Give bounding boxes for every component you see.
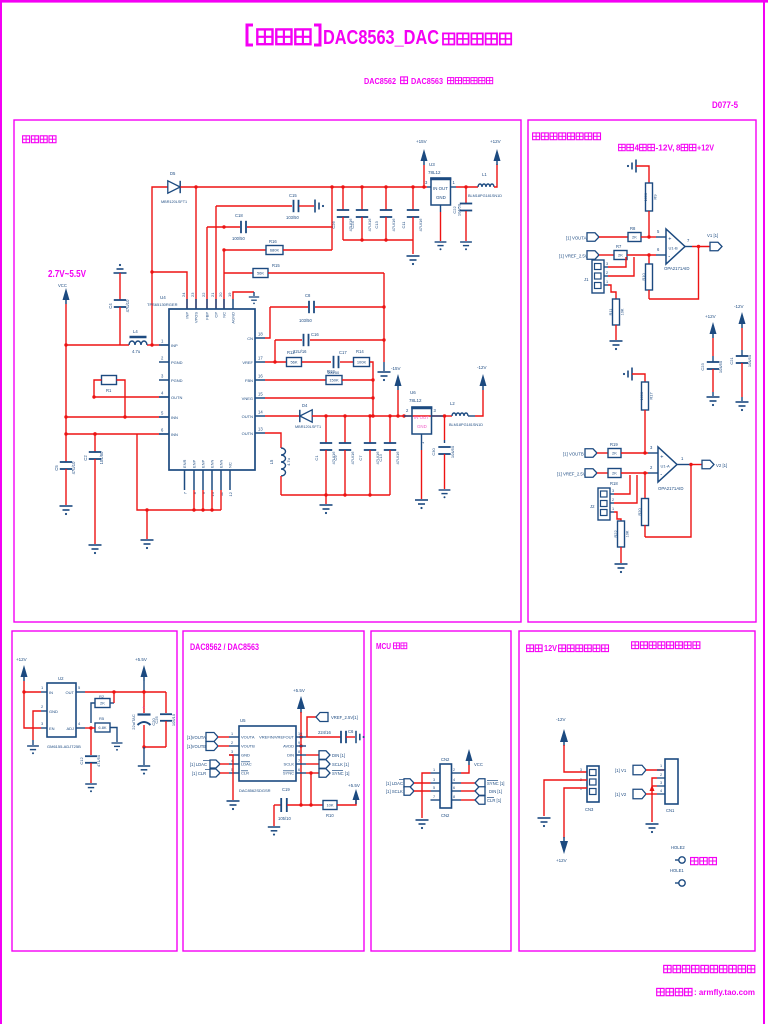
- svg-text:DAC8562: DAC8562: [364, 77, 396, 86]
- wire R19 to opamp pin3: [621, 452, 648, 454]
- svg-text:22u/TAC: 22u/TAC: [131, 714, 136, 730]
- wire main input rail: [66, 344, 129, 346]
- svg-text:2K: 2K: [100, 701, 105, 706]
- wire CN3 pin2 to ground: [544, 780, 587, 816]
- wire VCC down: [65, 304, 67, 345]
- svg-text:2: 2: [231, 741, 233, 745]
- svg-text:+5.5V: +5.5V: [135, 657, 147, 662]
- op-amp U1-B OPA2171AID: [666, 229, 685, 264]
- svg-text:C9: C9: [333, 455, 338, 461]
- svg-text:CLR: CLR: [241, 771, 249, 776]
- wire pin16 row: [265, 379, 326, 381]
- svg-text:1: 1: [606, 280, 608, 284]
- svg-text:6: 6: [453, 786, 455, 790]
- svg-text:U5: U5: [240, 718, 246, 723]
- svg-text:CP: CP: [214, 312, 219, 318]
- wire VCC to pin2: [461, 765, 469, 773]
- svg-text:C21: C21: [729, 357, 734, 365]
- svg-text:56K: 56K: [290, 360, 297, 365]
- svg-text:471/50: 471/50: [96, 754, 101, 767]
- resistor R11 10K vertical: [613, 299, 620, 325]
- port VREF_2.5V out: [306, 736, 341, 738]
- wire J1 pin3 to inverting node: [608, 257, 626, 267]
- svg-text:47U/16: 47U/16: [418, 218, 423, 232]
- CN2 pin 3: [431, 782, 441, 784]
- wire J1 pin2 to inverting node: [608, 257, 634, 276]
- svg-text:3: 3: [660, 781, 662, 785]
- diode D4 MBR120LSFT1: [300, 410, 312, 422]
- ground left (CN3): [538, 818, 551, 822]
- U6 GND pin to ground: [421, 434, 423, 450]
- svg-text:21: 21: [210, 292, 215, 297]
- inductor L1 BLM18PG181SN1D: [478, 184, 494, 187]
- U4 pin 15 VNEG: [255, 397, 265, 399]
- wire ground bus (MCU): [422, 773, 431, 818]
- wire -12V to CN3 pin3: [564, 745, 587, 772]
- svg-text:4.7u: 4.7u: [132, 349, 141, 354]
- svg-text:VREF: VREF: [242, 360, 253, 365]
- svg-text:100K: 100K: [357, 360, 367, 365]
- wire R17 to +input: [644, 410, 646, 453]
- svg-text:104/50: 104/50: [99, 451, 104, 464]
- U4 pin 13 OUTN: [255, 432, 265, 434]
- feedback wire to R20: [645, 465, 691, 538]
- svg-text:GND: GND: [417, 424, 427, 429]
- svg-text:HOLE1: HOLE1: [670, 868, 684, 873]
- resistor R10 100K vertical (feedback): [648, 255, 650, 264]
- svg-text:SYNC [1]: SYNC [1]: [332, 771, 349, 776]
- svg-text:VCC: VCC: [474, 762, 483, 767]
- svg-text:R1: R1: [106, 388, 112, 393]
- svg-text:U3: U3: [429, 162, 435, 167]
- svg-text:22U/16: 22U/16: [293, 349, 307, 354]
- svg-text:[1] LDAC: [1] LDAC: [386, 781, 403, 786]
- U4 pin 1 INP: [159, 344, 169, 346]
- svg-text:C15: C15: [289, 193, 297, 198]
- wire ground to R17: [632, 374, 645, 382]
- feedback wire to R10: [649, 247, 699, 300]
- svg-text:U1-B: U1-B: [669, 246, 678, 251]
- svg-text:10K: 10K: [326, 803, 333, 808]
- svg-text:D4: D4: [302, 403, 308, 408]
- svg-text:1: 1: [433, 768, 435, 772]
- port DIN (MCU): [461, 790, 475, 792]
- svg-text:ENP: ENP: [192, 459, 197, 468]
- ground under C12: [85, 784, 97, 788]
- U4 pin 23 VPOS: [195, 299, 197, 309]
- footer 武汉安富莱电子有限公司: [664, 965, 671, 972]
- port SYNC (MCU): [461, 782, 475, 784]
- port DIN: [306, 754, 319, 756]
- wire pin13 to L5: [265, 433, 281, 448]
- wire INP top pin feed: [152, 272, 187, 309]
- svg-text:13: 13: [258, 427, 263, 432]
- svg-text:R10: R10: [641, 273, 646, 281]
- wire C8 row: [270, 306, 308, 308]
- wire CP top pin feed: [206, 227, 208, 309]
- svg-text:[1] V2: [1] V2: [615, 792, 627, 797]
- resistor R7 2K: [614, 251, 627, 260]
- svg-text:C13: C13: [374, 221, 379, 229]
- svg-text:BLM18PG181SN1D: BLM18PG181SN1D: [468, 194, 502, 198]
- svg-text:2.7V~5.5V: 2.7V~5.5V: [48, 269, 86, 280]
- port V1: [710, 242, 722, 251]
- svg-text:V1 [1]: V1 [1]: [707, 233, 718, 238]
- ground under U2 gnd: [27, 746, 39, 750]
- svg-text:C16: C16: [311, 332, 319, 337]
- svg-text:C30: C30: [431, 448, 436, 456]
- wire R7 to opamp pin6: [627, 254, 656, 256]
- capacitor C17 100/50: [334, 356, 339, 368]
- wire J2 pin3 to inverting node: [614, 475, 630, 494]
- wire riser x384: [383, 273, 385, 362]
- svg-text:U1-A: U1-A: [661, 464, 670, 469]
- svg-text:C25: C25: [154, 716, 159, 724]
- U4 pin 3 PGND: [159, 379, 169, 381]
- wire GND pin3 to ground: [229, 755, 233, 800]
- box regulator section bottom-left: [12, 631, 177, 951]
- capacitor C5 47u/10: [60, 462, 72, 469]
- svg-text:BLM18PG181SN1D: BLM18PG181SN1D: [449, 423, 483, 427]
- svg-text:VREF_2.5V[1]: VREF_2.5V[1]: [331, 715, 358, 720]
- net -12V flag: [475, 390, 483, 416]
- resistor R17 100K vertical: [642, 382, 649, 410]
- sideways ground right of C6: [356, 731, 360, 743]
- svg-text:19: 19: [227, 292, 232, 297]
- svg-text:VPOS: VPOS: [194, 312, 199, 323]
- svg-text:GND: GND: [241, 753, 250, 758]
- U5 pin 1 VOUTA: [229, 736, 239, 738]
- box MCU interface section: [371, 631, 511, 951]
- diode D5 MBR120LSFT1: [152, 187, 168, 345]
- svg-text:104/50: 104/50: [747, 354, 752, 367]
- svg-text:SYNC: SYNC: [283, 771, 294, 776]
- ground under x384: [383, 362, 385, 371]
- wire J2 pin2 to inverting node: [614, 475, 637, 503]
- svg-text:LDAC: LDAC: [241, 762, 252, 767]
- capacitor C11 47U/16: [412, 187, 414, 210]
- svg-text:17: 17: [258, 356, 263, 361]
- capacitor C16 22U/16: [304, 334, 309, 346]
- svg-text:3: 3: [612, 489, 614, 493]
- wire ground to R9 top: [636, 166, 649, 183]
- sideways ground feeding R9: [632, 160, 636, 173]
- svg-text:AGND: AGND: [231, 312, 236, 324]
- svg-text:6.8K: 6.8K: [98, 725, 107, 730]
- svg-text:105/10: 105/10: [171, 713, 176, 726]
- ground under enable bus: [146, 510, 148, 539]
- U5 pin 7 SCLK: [296, 763, 306, 765]
- resistor R15 56K: [253, 269, 268, 278]
- svg-text:-12V: -12V: [734, 304, 744, 309]
- wire rail R16 row: [224, 249, 266, 251]
- box 运放驱动输出电路 opamp section: [528, 120, 756, 622]
- U4 pin 18 CN: [255, 337, 265, 339]
- CN2 pin 6: [452, 790, 462, 792]
- svg-text:47u/10: 47u/10: [125, 299, 130, 312]
- svg-text:+12V: +12V: [556, 858, 567, 863]
- port CLR (MCU): [461, 799, 475, 801]
- wire pin14 rail: [265, 415, 299, 417]
- capacitor C23 104/50: [712, 338, 714, 356]
- svg-text:[1]VOUTB: [1]VOUTB: [187, 744, 206, 749]
- U4 pin 8 ENP: [193, 470, 195, 490]
- svg-text:47U/16: 47U/16: [395, 451, 400, 465]
- wire R5 right to ground: [110, 728, 117, 743]
- wire R10 to +5.5V: [337, 799, 356, 805]
- port SYNC: [306, 772, 319, 774]
- svg-text:IN OUT: IN OUT: [433, 186, 448, 191]
- svg-text:OUT: OUT: [66, 690, 75, 695]
- capacitor C9 47U/16: [344, 416, 346, 443]
- wire U3 out to L1: [456, 186, 478, 188]
- svg-text:16: 16: [258, 374, 263, 379]
- ground under bottom bus: [325, 495, 327, 504]
- svg-text:U2: U2: [58, 676, 64, 681]
- U5 pin 9 AVDD: [296, 745, 306, 747]
- resistor R8 2K: [628, 233, 641, 242]
- svg-text:C4: C4: [108, 303, 113, 309]
- net VCC flag (MCU): [466, 749, 473, 761]
- capacitor C7 47U/16: [369, 416, 371, 443]
- svg-text:4: 4: [453, 778, 455, 782]
- wire VOUTA to R8: [599, 236, 628, 238]
- label 运放4脚接-12V，8脚接+12V (pink note): [619, 144, 626, 150]
- ground under C30: [439, 490, 451, 494]
- wire VREF to R18: [597, 472, 608, 474]
- U4 pin 9 ENP: [202, 470, 204, 490]
- svg-text:10: 10: [298, 732, 302, 736]
- svg-text:OPA2171AID: OPA2171AID: [664, 266, 689, 271]
- sideways ground right of C15: [315, 200, 319, 213]
- svg-text:R5: R5: [99, 716, 105, 721]
- svg-text:VOUTB: VOUTB: [241, 744, 255, 749]
- svg-text:AVDD: AVDD: [283, 744, 294, 749]
- svg-text:[1] LDAC: [1] LDAC: [190, 762, 207, 767]
- svg-text:4: 4: [660, 789, 662, 793]
- svg-text:[1] V1: [1] V1: [615, 768, 627, 773]
- U4 pin 14 OUTN: [255, 415, 265, 417]
- resistor R19 2K: [608, 449, 621, 458]
- svg-text:104/50: 104/50: [457, 203, 462, 216]
- U4 pin 6 INN: [159, 433, 169, 435]
- svg-text:[1]VOUTA: [1]VOUTA: [187, 735, 206, 740]
- svg-text:R10: R10: [326, 813, 334, 818]
- U4 pin 5 INN: [159, 416, 169, 418]
- svg-text:VCC: VCC: [58, 283, 67, 288]
- wire rail R15 row: [224, 272, 253, 274]
- port SCLK: [306, 763, 319, 765]
- capacitor C12 471/50: [90, 728, 92, 755]
- wire ADJ junction: [85, 727, 95, 729]
- capacitor C25 105/10: [165, 692, 167, 713]
- svg-text:4: 4: [635, 144, 640, 153]
- svg-text:R17: R17: [649, 392, 654, 400]
- svg-text:U6: U6: [410, 390, 416, 395]
- svg-text:VREFIN/VREFOUT: VREFIN/VREFOUT: [259, 735, 294, 740]
- svg-text:[1] VREF_2.5V: [1] VREF_2.5V: [559, 254, 588, 259]
- svg-text:GND: GND: [49, 709, 58, 714]
- resistor R10 10K (DAC): [323, 801, 337, 810]
- svg-text:INN: INN: [171, 432, 178, 437]
- svg-text:: armfly.tao.com: : armfly.tao.com: [694, 987, 755, 997]
- ground under top cap bank: [412, 240, 414, 254]
- CN2 pin 8: [452, 799, 462, 801]
- svg-text:R12: R12: [287, 350, 295, 355]
- svg-text:R18: R18: [610, 481, 618, 486]
- svg-text:2K: 2K: [612, 471, 617, 476]
- net +12V down flag: [560, 841, 568, 854]
- wire J1 pin1 to R11: [608, 285, 616, 299]
- svg-text:CN2: CN2: [441, 813, 450, 818]
- svg-text:DIN [1]: DIN [1]: [489, 789, 502, 794]
- svg-text:15: 15: [258, 392, 263, 397]
- svg-text:DAC8562SDGSR: DAC8562SDGSR: [239, 788, 271, 793]
- U4 pin 24 INP: [186, 299, 188, 309]
- svg-text:C7: C7: [358, 455, 363, 461]
- svg-text:DIN [1]: DIN [1]: [332, 753, 345, 758]
- resistor R16 680K: [266, 246, 283, 255]
- wire R8 to opamp pin5: [641, 236, 656, 238]
- svg-text:J1: J1: [584, 277, 589, 282]
- wire NC top pin feed: [223, 250, 225, 309]
- svg-text:47U/16: 47U/16: [367, 218, 372, 232]
- box 电源电路 power section: [14, 120, 521, 622]
- svg-text:R2: R2: [99, 694, 105, 699]
- svg-text:2: 2: [606, 271, 608, 275]
- U4 pin 4 OUTN: [159, 396, 169, 398]
- connector J2: [598, 488, 610, 520]
- svg-text:56K: 56K: [257, 271, 264, 276]
- wire pin15 row: [265, 397, 373, 399]
- wire C16 row: [275, 339, 302, 341]
- svg-text:1: 1: [612, 507, 614, 511]
- svg-text:+12V: +12V: [16, 657, 27, 662]
- wire pin17 row: [265, 361, 286, 363]
- svg-text:C13: C13: [378, 454, 383, 462]
- capacitor C13 47U/16: [389, 416, 391, 443]
- capacitor C24 47U/16: [361, 187, 363, 210]
- svg-text:12: 12: [228, 491, 233, 496]
- svg-text:78L12: 78L12: [428, 170, 441, 175]
- svg-text:OUTN: OUTN: [242, 431, 253, 436]
- svg-text:IN: IN: [49, 690, 53, 695]
- U4 pin 2 PGND: [159, 361, 169, 363]
- U4 pin 16 FBN: [255, 379, 265, 381]
- U5 pin 8 DIN: [296, 754, 306, 756]
- svg-text:+5.5V: +5.5V: [293, 688, 305, 693]
- U5 pin 6 SYNC: [296, 772, 306, 774]
- wire pin5 rail: [66, 416, 159, 418]
- label 安装孔: [691, 858, 698, 865]
- svg-text:224/16: 224/16: [318, 730, 331, 735]
- page border top: [0, 0, 768, 3]
- svg-text:R20: R20: [637, 508, 642, 516]
- svg-text:8: 8: [298, 750, 300, 754]
- svg-text:R19: R19: [610, 442, 618, 447]
- svg-text:680K: 680K: [270, 248, 280, 253]
- svg-text:1: 1: [231, 732, 233, 736]
- svg-text:C5: C5: [54, 465, 59, 471]
- svg-text:R8: R8: [630, 226, 636, 231]
- svg-text:2: 2: [453, 768, 455, 772]
- svg-text:-: -: [668, 254, 670, 260]
- svg-text:R11: R11: [608, 308, 613, 316]
- svg-text:L1: L1: [482, 172, 487, 177]
- U3 GND to ground: [440, 205, 442, 212]
- wire right riser x332: [331, 187, 333, 250]
- wire cap bank bottom bus: [281, 494, 390, 496]
- svg-text:+12V: +12V: [705, 314, 716, 319]
- svg-text:C12: C12: [79, 757, 84, 765]
- resistor R18 2K: [608, 469, 621, 478]
- wire SYNC pulldown: [310, 773, 312, 805]
- svg-text:105/10: 105/10: [278, 816, 291, 821]
- svg-text:VOUTA: VOUTA: [241, 735, 255, 740]
- svg-text:2: 2: [660, 773, 662, 777]
- wire rail C18 row: [207, 226, 240, 228]
- svg-text:CN: CN: [247, 336, 253, 341]
- svg-text:104/50: 104/50: [450, 445, 455, 458]
- svg-text:C11: C11: [401, 221, 406, 229]
- wire +12V to U2: [24, 681, 41, 728]
- svg-text:103/50: 103/50: [299, 318, 312, 323]
- svg-text:10K: 10K: [621, 308, 625, 315]
- wire rail C15 row: [216, 205, 292, 207]
- capacitor C1 47U/16: [325, 416, 327, 443]
- wire CN1 pins2/3 to ground: [652, 778, 657, 786]
- resistor R13 150K: [326, 376, 342, 385]
- svg-text:+: +: [660, 455, 663, 461]
- svg-text:TPS65130RGER: TPS65130RGER: [147, 302, 178, 307]
- ground under C20: [143, 747, 145, 765]
- resistor R2 2K: [95, 699, 110, 708]
- U5 pin 5 CLR: [229, 772, 239, 774]
- U5 pin 3 GND: [229, 754, 239, 756]
- inductor L2 BLM18PG181SN1D: [452, 413, 468, 416]
- svg-text:NC: NC: [222, 312, 227, 318]
- wire C8 to pin18: [265, 307, 270, 338]
- wire OUT rail: [85, 691, 166, 693]
- inductor L4 4.7u: [130, 336, 147, 339]
- svg-text:20: 20: [218, 292, 223, 297]
- capacitor C8 103/50: [309, 301, 314, 313]
- wire VOUTB to R19: [597, 452, 608, 454]
- svg-text:10K: 10K: [626, 530, 630, 537]
- svg-text:IN OUT: IN OUT: [414, 415, 429, 420]
- svg-text:-12V,: -12V,: [656, 144, 675, 153]
- resistor R9 100K vertical: [646, 183, 653, 211]
- svg-text:[1] VOUTA: [1] VOUTA: [566, 236, 587, 241]
- wire U2 GND down: [33, 711, 41, 740]
- svg-text:R22: R22: [613, 530, 618, 538]
- svg-text:3: 3: [606, 262, 608, 266]
- svg-text:R13: R13: [327, 369, 335, 374]
- wire CN3 pin1 to +12V: [564, 788, 587, 838]
- svg-text:INP: INP: [185, 312, 190, 319]
- resistor R22 10K vertical: [618, 521, 625, 547]
- svg-text:22: 22: [201, 292, 206, 297]
- wire U6 out to L2: [445, 415, 452, 417]
- wire R2 right to OUT: [110, 702, 114, 704]
- svg-text:C1: C1: [314, 455, 319, 461]
- svg-text:CN2: CN2: [441, 757, 450, 762]
- CN2 pin 5: [431, 790, 441, 792]
- svg-text:7: 7: [298, 759, 300, 763]
- svg-text:ADJ: ADJ: [66, 726, 74, 731]
- sideways ground feeding R17: [628, 368, 632, 381]
- svg-text:SYNC [1]: SYNC [1]: [487, 781, 504, 786]
